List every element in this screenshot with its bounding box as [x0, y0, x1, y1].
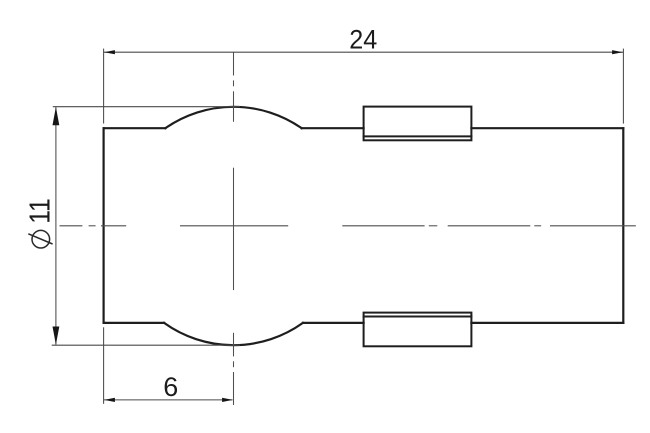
vertical centerline (sphere center): [233, 52, 235, 405]
arrow left of dim 6: [104, 398, 115, 402]
label diameter symbol: [28, 230, 52, 248]
horizontal centerline (axis): [60, 225, 636, 227]
wire: bottom edge band to right end: [471, 322, 623, 324]
wire: bottom edge sphere to band: [303, 322, 364, 324]
wire: top edge left of sphere: [104, 127, 166, 129]
extension line bottom (tangent to sphere): [52, 344, 240, 346]
svg-text:6: 6: [163, 372, 178, 402]
arrow up of dim 11: [53, 107, 60, 125]
arrow left of dim 24: [104, 50, 115, 54]
dimension 24: [104, 49, 624, 124]
dimension 6: [104, 327, 233, 404]
arc: sphere top: [165, 107, 301, 128]
dimension line: [55, 107, 57, 344]
wire: top edge sphere to band: [302, 127, 364, 129]
wire: right end face: [622, 128, 624, 323]
arc: sphere bottom: [164, 323, 303, 345]
arrow right of dim 24: [612, 50, 623, 54]
knurled band top: [364, 107, 472, 141]
knurled band bottom: [364, 313, 472, 347]
body outline (cylinder side view with spherical boss): [104, 107, 624, 345]
wire: top edge band to right end: [471, 127, 623, 129]
wire: left end face: [102, 128, 104, 323]
extension line left: [103, 327, 105, 404]
dimension diameter 11: [52, 107, 240, 346]
dimension line: [104, 51, 623, 53]
arrow down of dim 11: [53, 327, 60, 345]
svg-text:11: 11: [24, 198, 56, 224]
extension line right: [622, 49, 624, 124]
extension line top (tangent to sphere): [53, 106, 240, 108]
wire: bottom edge left of sphere: [104, 322, 165, 324]
dimension line: [104, 399, 233, 401]
wire: band bottom inner line: [364, 316, 472, 318]
svg-text:24: 24: [349, 25, 377, 55]
arrow right of dim 6: [222, 398, 233, 402]
wire: band top inner line: [364, 135, 472, 137]
extension line left: [103, 49, 105, 124]
